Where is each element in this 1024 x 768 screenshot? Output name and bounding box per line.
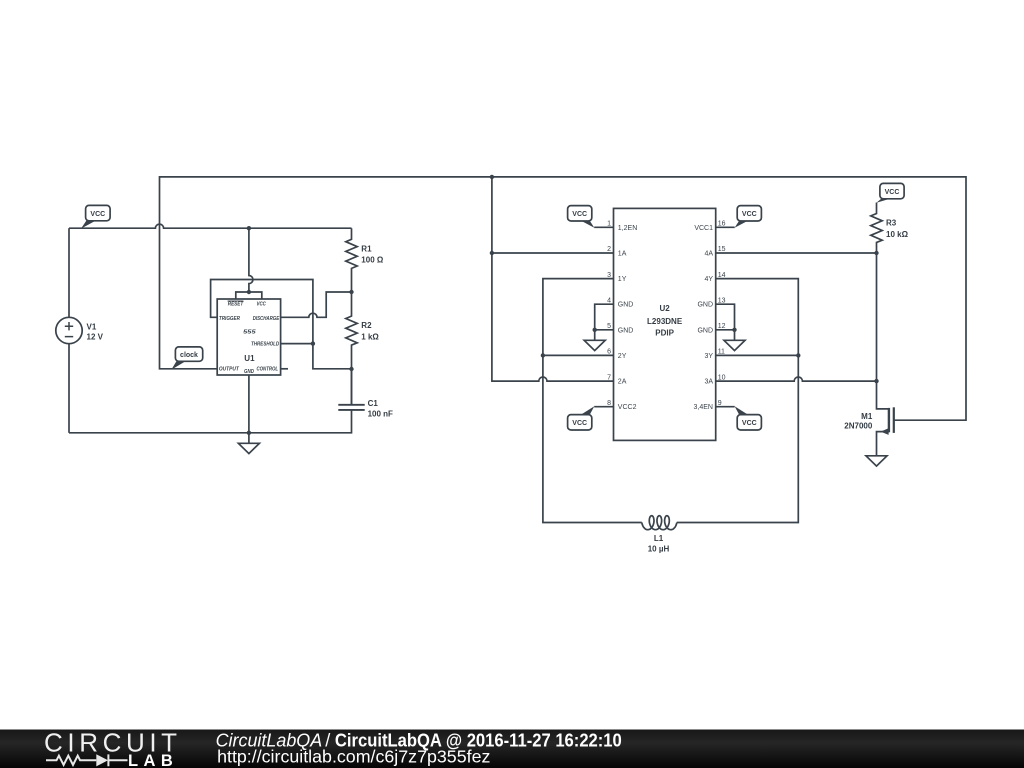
wire: bottom ground rail and C1 bottom lead: [69, 410, 352, 433]
ground under U2 left gnd pins: [584, 340, 605, 350]
node: 3Y junction: [796, 353, 800, 357]
svg-text:clock: clock: [180, 352, 198, 359]
U1 555 body: [217, 299, 280, 375]
svg-text:8: 8: [607, 400, 611, 407]
svg-text:VCC2: VCC2: [618, 404, 637, 411]
svg-text:10 kΩ: 10 kΩ: [886, 230, 909, 239]
inductor L1 10 uH: [642, 516, 677, 530]
svg-text:1A: 1A: [618, 251, 627, 258]
wire: V1 top lead: [68, 228, 70, 317]
op-amp/timer U1 555: trigger loop wire: [211, 280, 352, 369]
svg-text:LAB: LAB: [128, 752, 173, 768]
ground under U1: [238, 443, 259, 453]
svg-text:GND: GND: [618, 302, 634, 309]
ground under M1: [866, 456, 887, 466]
svg-text:GND: GND: [618, 327, 634, 334]
svg-text:OUTPUT: OUTPUT: [219, 367, 239, 373]
svg-text:11: 11: [718, 349, 725, 356]
svg-text:PDIP: PDIP: [655, 329, 674, 338]
svg-text:L1: L1: [654, 534, 664, 543]
svg-text:5: 5: [607, 323, 611, 330]
VCC flag at pin 9: [735, 406, 749, 414]
svg-text:15: 15: [718, 246, 726, 253]
logo resistor-diode glyph: [46, 754, 128, 766]
wire: 2Y stub: [543, 354, 614, 356]
wire: V1 bottom lead: [68, 344, 70, 433]
wire: 1Y to L1 left: [543, 279, 642, 523]
capacitor C1 100 nF: [338, 369, 364, 410]
svg-text:10: 10: [718, 374, 726, 381]
VCC flag at R3: [876, 199, 890, 203]
node: right gnd junction: [732, 328, 736, 332]
svg-text:3: 3: [607, 272, 611, 279]
wire: 4A to R3 node: [716, 252, 877, 254]
wire: 4Y to L1 right: [677, 279, 799, 523]
resistor R2 1 kohm: [346, 292, 357, 369]
wire: R3 node to M1 drain: [877, 253, 889, 409]
wire: control pin stub: [281, 368, 288, 370]
svg-text:VCC: VCC: [257, 301, 267, 307]
svg-text:U1: U1: [244, 354, 255, 363]
wire: threshold to loop: [281, 343, 313, 345]
wire: 3A to M1 drain node (hop over 4Y wire): [716, 377, 877, 381]
svg-text:CONTROL: CONTROL: [257, 366, 279, 372]
svg-text:12 V: 12 V: [87, 332, 104, 341]
svg-text:VCC: VCC: [572, 211, 587, 218]
svg-text:GND: GND: [697, 302, 713, 309]
svg-text:100 nF: 100 nF: [368, 409, 393, 418]
node: 2Y junction: [541, 353, 545, 357]
node: left gnd junction: [593, 328, 597, 332]
svg-text:VCC: VCC: [742, 211, 757, 218]
svg-text:1: 1: [607, 221, 611, 228]
svg-text:DISCHARGE: DISCHARGE: [253, 316, 280, 322]
svg-text:3,4EN: 3,4EN: [694, 404, 713, 411]
wire: U1 gnd stub: [248, 375, 250, 443]
node: 3A/drain junction: [874, 379, 878, 383]
svg-text:M1: M1: [861, 412, 873, 421]
svg-text:VCC: VCC: [90, 211, 105, 218]
svg-text:12: 12: [718, 323, 726, 330]
svg-text:GND: GND: [697, 327, 713, 334]
svg-text:3Y: 3Y: [704, 353, 713, 360]
svg-text:VCC: VCC: [572, 420, 587, 427]
svg-text:R3: R3: [886, 219, 897, 228]
svg-text:4A: 4A: [704, 251, 713, 258]
svg-text:1,2EN: 1,2EN: [618, 225, 637, 232]
node: R3/4A junction: [874, 251, 878, 255]
wire: clock vertical branch to U2 inputs: [492, 177, 614, 381]
node: VCC rail junction: [247, 226, 251, 230]
VCC flag at pin 1: [581, 221, 595, 228]
IC U2 L293DNE: pin stubs: [594, 227, 613, 406]
svg-text:7: 7: [607, 374, 611, 381]
svg-text:3A: 3A: [704, 379, 713, 386]
svg-text:VCC: VCC: [742, 420, 757, 427]
svg-text:100 Ω: 100 Ω: [361, 256, 384, 265]
wire: VCC rail from V1 top to R1 top (hop over clock vertical): [69, 224, 352, 228]
VCC net flag (top left): [81, 220, 96, 228]
bottom bar: [0, 730, 1024, 768]
svg-text:2A: 2A: [618, 379, 627, 386]
svg-text:V1: V1: [87, 322, 97, 331]
voltage source V1: [56, 317, 82, 343]
svg-text:RESET: RESET: [228, 301, 244, 307]
svg-text:C1: C1: [368, 399, 379, 408]
VCC flag at pin 8: [581, 406, 595, 414]
svg-text:http://circuitlab.com/c6j7z7p3: http://circuitlab.com/c6j7z7p355fez: [217, 747, 490, 767]
resistor R1 100 ohm: [346, 228, 357, 292]
svg-text:9: 9: [718, 400, 722, 407]
svg-text:555: 555: [243, 330, 257, 336]
svg-text:1 kΩ: 1 kΩ: [361, 333, 379, 342]
svg-text:13: 13: [718, 297, 726, 304]
svg-text:R1: R1: [361, 244, 372, 253]
node: bracket junction: [247, 290, 251, 294]
node: gnd rail junction: [247, 431, 251, 435]
svg-text:GND: GND: [244, 369, 254, 375]
wire: output to clock corner, up to top rail, across to M1 gate: [160, 177, 967, 420]
svg-text:10 µH: 10 µH: [648, 544, 670, 553]
VCC flag at pin 16: [735, 221, 749, 228]
resistor R3 10 kohm: [871, 203, 882, 254]
svg-text:U2: U2: [659, 304, 670, 313]
node: 1A branch: [490, 251, 494, 255]
svg-text:L293DNE: L293DNE: [647, 317, 683, 326]
svg-text:R2: R2: [361, 321, 372, 330]
svg-text:VCC1: VCC1: [694, 225, 713, 232]
svg-text:6: 6: [607, 349, 611, 356]
svg-text:2: 2: [607, 246, 611, 253]
clock net flag: [171, 361, 185, 370]
svg-text:2N7000: 2N7000: [844, 422, 873, 431]
wire: reset/vcc bracket above U1: [236, 292, 262, 299]
svg-text:TRIGGER: TRIGGER: [219, 316, 240, 322]
node: R2/C1/threshold junction: [349, 367, 353, 371]
wire: 1A input: [492, 252, 614, 254]
svg-text:4: 4: [607, 297, 611, 304]
svg-text:THRESHOLD: THRESHOLD: [251, 341, 279, 347]
node: top rail branch: [490, 175, 494, 179]
svg-text:4Y: 4Y: [704, 276, 713, 283]
svg-text:2Y: 2Y: [618, 353, 627, 360]
U2 body: [614, 208, 716, 440]
node: threshold junction: [311, 341, 315, 345]
node: R1/R2/discharge junction: [349, 290, 353, 294]
svg-text:16: 16: [718, 221, 726, 228]
ground under U2 right gnd pins: [724, 340, 745, 350]
wire: bracket to VCC rail (hop over trigger loop): [249, 228, 253, 292]
svg-text:14: 14: [718, 272, 726, 279]
svg-text:1Y: 1Y: [618, 276, 627, 283]
svg-text:VCC: VCC: [885, 189, 900, 196]
wire: 3Y stub: [716, 354, 799, 356]
transistor M1 2N7000: [888, 408, 890, 432]
wire: discharge to R1/R2 node (hop over loop wire): [281, 292, 352, 317]
